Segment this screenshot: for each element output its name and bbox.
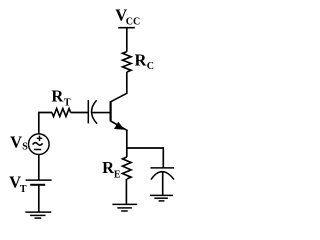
wire RC to collector bend xyxy=(111,72,127,102)
label VT xyxy=(9,173,27,195)
resistor RE xyxy=(123,157,132,179)
label RT xyxy=(51,87,71,109)
label RE xyxy=(102,158,121,180)
source VS plus sign xyxy=(37,136,42,141)
battery VT short plate xyxy=(30,184,45,186)
source VS sine squiggle xyxy=(33,143,43,145)
wire base to transistor xyxy=(92,112,110,114)
wire RT to source corner and down to source xyxy=(39,113,52,135)
svg-text:CC: CC xyxy=(126,17,140,28)
svg-text:R: R xyxy=(51,87,64,106)
coupling capacitor straight plate xyxy=(87,100,89,123)
svg-text:S: S xyxy=(22,141,28,152)
node VCC label xyxy=(115,6,140,28)
source VS minus sign xyxy=(34,149,41,151)
wire emitter down to node xyxy=(126,130,128,157)
wire CE to ground xyxy=(162,172,164,195)
svg-text:T: T xyxy=(20,184,27,195)
VCC supply terminal bar xyxy=(118,27,135,29)
coupling capacitor curved plate xyxy=(92,100,98,124)
wire RT to coupling capacitor xyxy=(71,112,89,114)
resistor RC xyxy=(123,52,132,72)
svg-text:R: R xyxy=(135,50,148,69)
capacitor CE top plate xyxy=(150,167,174,169)
wire battery to ground xyxy=(38,185,40,212)
label RC xyxy=(135,50,155,72)
resistor RT xyxy=(52,109,71,117)
wire source to battery xyxy=(38,155,40,180)
source VS circle xyxy=(29,134,50,155)
wire emitter node to bypass branch xyxy=(127,148,164,168)
battery VT long plate xyxy=(26,179,52,181)
capacitor CE curved plate xyxy=(151,172,174,180)
label VS xyxy=(10,132,28,152)
svg-text:C: C xyxy=(147,61,154,72)
transistor Q1 emitter lead xyxy=(111,121,127,131)
transistor Q1 base bar xyxy=(109,101,111,121)
svg-text:V: V xyxy=(10,132,22,151)
svg-text:T: T xyxy=(64,98,71,109)
wire VCC to RC xyxy=(126,28,128,52)
wire RE to ground xyxy=(125,179,127,204)
ground (left, under VT) xyxy=(25,212,51,218)
ground (middle, under RE) xyxy=(112,204,137,211)
svg-text:E: E xyxy=(114,169,121,180)
transistor Q1 emitter arrow xyxy=(114,122,125,130)
ground (right, under CE) xyxy=(150,195,173,201)
